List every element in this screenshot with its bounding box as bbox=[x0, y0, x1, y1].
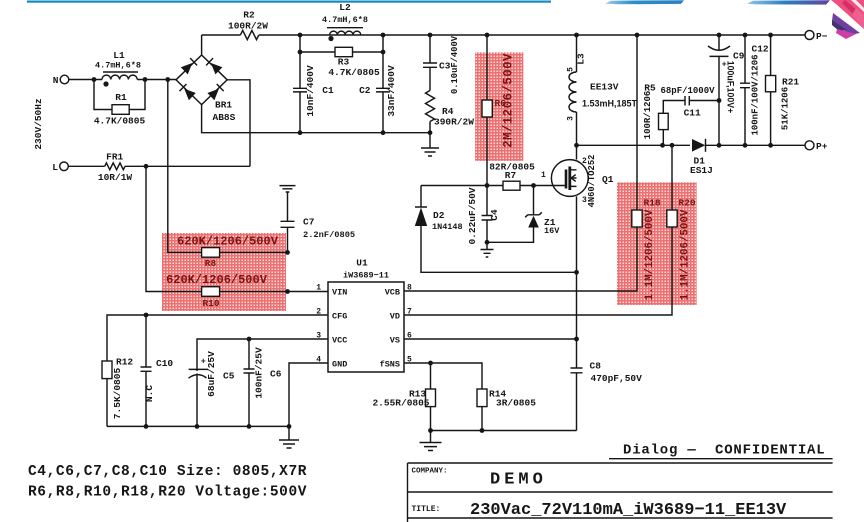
capacitor C8 bbox=[571, 368, 583, 431]
svg-text:3: 3 bbox=[567, 116, 576, 121]
highlight box R18 R20 bbox=[617, 182, 697, 305]
svg-text:P+: P+ bbox=[816, 141, 828, 152]
node junction source line bbox=[574, 270, 579, 275]
svg-text:1.1M/1206/500V: 1.1M/1206/500V bbox=[680, 209, 692, 300]
svg-text:C8: C8 bbox=[590, 361, 602, 372]
svg-text:10R/1W: 10R/1W bbox=[98, 172, 133, 183]
svg-text:33nF/400V: 33nF/400V bbox=[386, 65, 397, 117]
capacitor C1 bbox=[293, 52, 307, 133]
svg-text:R7: R7 bbox=[505, 170, 517, 181]
capacitor C11 bbox=[685, 96, 719, 106]
svg-text:100R/2W: 100R/2W bbox=[228, 21, 268, 32]
svg-text:0.10uF/400V: 0.10uF/400V bbox=[450, 35, 460, 94]
svg-text:L2: L2 bbox=[339, 2, 351, 13]
svg-text:AB8S: AB8S bbox=[213, 112, 236, 123]
svg-text:D2: D2 bbox=[433, 210, 445, 221]
resistor R3 bbox=[300, 35, 335, 52]
svg-text:4.7mH,6*8: 4.7mH,6*8 bbox=[95, 61, 141, 71]
svg-text:C1: C1 bbox=[322, 85, 334, 96]
svg-text:N: N bbox=[53, 75, 59, 86]
node P+ terminal bbox=[805, 141, 814, 150]
bridge rectifier BR1 bbox=[176, 55, 227, 105]
svg-text:R21: R21 bbox=[782, 77, 799, 88]
resistor R8 bbox=[202, 248, 220, 258]
svg-text:R4: R4 bbox=[442, 106, 454, 117]
wire N-sense down bbox=[168, 80, 202, 253]
svg-text:10nF/400V: 10nF/400V bbox=[305, 65, 316, 117]
svg-text:C11: C11 bbox=[684, 107, 701, 118]
svg-text:1: 1 bbox=[541, 171, 546, 180]
wire VS net bbox=[404, 338, 577, 340]
svg-text:N.C: N.C bbox=[144, 385, 155, 402]
svg-text:R1: R1 bbox=[115, 92, 127, 103]
wire gate line bbox=[421, 185, 503, 187]
capacitor C12 bbox=[740, 35, 750, 145]
ground primary bbox=[421, 133, 439, 156]
svg-text:C4: C4 bbox=[489, 209, 500, 221]
svg-text:1.53mH,185T: 1.53mH,185T bbox=[582, 99, 638, 109]
wire drain line bbox=[577, 144, 691, 146]
wire Q1 source down bbox=[576, 196, 578, 368]
svg-text:100R/1206: 100R/1206 bbox=[643, 91, 653, 140]
svg-text:0.22uF/50V: 0.22uF/50V bbox=[467, 187, 478, 244]
node N terminal bbox=[60, 75, 69, 84]
wire top rail bbox=[259, 34, 805, 36]
svg-text:470pF,50V: 470pF,50V bbox=[591, 373, 643, 384]
decorative top blue line bbox=[27, 1, 551, 3]
capacitor C6 bbox=[244, 339, 255, 426]
svg-text:C5: C5 bbox=[223, 371, 235, 382]
svg-text:VD: VD bbox=[390, 312, 400, 322]
svg-text:C6: C6 bbox=[270, 369, 282, 380]
svg-text:3R/0805: 3R/0805 bbox=[496, 397, 536, 408]
wire sense gnd bbox=[431, 430, 577, 432]
svg-text:R6,R8,R10,R18,R20 Voltage:500V: R6,R8,R10,R18,R20 Voltage:500V bbox=[28, 485, 307, 501]
svg-text:16V: 16V bbox=[544, 226, 560, 236]
capacitor C10 bbox=[141, 315, 152, 426]
ground U1 bbox=[279, 426, 299, 448]
svg-text:FR1: FR1 bbox=[106, 152, 123, 163]
highlight box R6 bbox=[475, 52, 523, 160]
wire L-line to bridge right vertex bbox=[227, 80, 250, 167]
svg-text:4N60/TO252: 4N60/TO252 bbox=[587, 155, 597, 208]
svg-text:Q1: Q1 bbox=[602, 174, 614, 185]
title block frame bbox=[408, 463, 833, 518]
svg-text:C4,C6,C7,C8,C10 Size: 0805,X7R: C4,C6,C7,C8,C10 Size: 0805,X7R bbox=[28, 464, 307, 480]
ground sense bbox=[420, 431, 442, 451]
svg-text:R20: R20 bbox=[679, 198, 696, 209]
svg-text:C10: C10 bbox=[156, 358, 173, 369]
zener Z1 bbox=[525, 186, 542, 218]
op-amp U1 bbox=[328, 282, 404, 372]
svg-text:COMPANY:: COMPANY: bbox=[412, 468, 448, 476]
resistor R6 bbox=[486, 35, 488, 100]
svg-text:100nF/100V/1206: 100nF/100V/1206 bbox=[751, 54, 761, 135]
svg-text:68uF/25V: 68uF/25V bbox=[206, 351, 217, 397]
svg-text:230Vac_72V110mA_iW3689−11_EE13: 230Vac_72V110mA_iW3689−11_EE13V bbox=[470, 501, 787, 520]
decorative brush stroke 2 bbox=[747, 0, 830, 4]
svg-text:68pF/1000V: 68pF/1000V bbox=[661, 86, 716, 96]
wire bridge top to rail bbox=[201, 35, 203, 55]
svg-text:C7: C7 bbox=[303, 217, 315, 228]
resistor R4 bbox=[426, 91, 435, 122]
capacitor C9 bbox=[718, 35, 720, 50]
svg-text:BR1: BR1 bbox=[215, 100, 232, 111]
svg-text:8: 8 bbox=[407, 284, 412, 293]
capacitor C7 bbox=[281, 192, 295, 252]
svg-text:620K/1206/500V: 620K/1206/500V bbox=[166, 273, 268, 287]
svg-text:230V/50Hz: 230V/50Hz bbox=[33, 98, 44, 149]
resistor R1 bbox=[94, 80, 112, 110]
svg-text:51K/1206: 51K/1206 bbox=[781, 87, 791, 130]
ground C7 (inverted) bbox=[280, 186, 296, 192]
node junction gnd rail end bbox=[428, 130, 433, 135]
svg-text:iW3689−11: iW3689−11 bbox=[343, 271, 389, 281]
node P- terminal bbox=[805, 31, 814, 40]
wire fSNS net bbox=[404, 363, 482, 389]
wire L1 to bridge bbox=[137, 79, 176, 81]
decorative corner ribbon bbox=[831, 0, 864, 29]
resistor R10 bbox=[202, 287, 220, 297]
svg-text:U1: U1 bbox=[356, 258, 368, 269]
svg-text:1N4148: 1N4148 bbox=[432, 222, 463, 232]
wire GND net bbox=[289, 363, 328, 426]
svg-text:4.7mH,6*8: 4.7mH,6*8 bbox=[322, 15, 368, 25]
decorative brush stroke 1 bbox=[605, 0, 684, 4]
fuse resistor FR1 bbox=[60, 162, 69, 171]
svg-text:VCC: VCC bbox=[332, 336, 347, 346]
node junction C1 bottom bbox=[298, 130, 303, 135]
wire N input bbox=[69, 79, 102, 81]
svg-text:4.7K/0805: 4.7K/0805 bbox=[94, 116, 146, 127]
svg-text:L1: L1 bbox=[113, 50, 125, 61]
svg-text:CFG: CFG bbox=[332, 312, 347, 322]
svg-text:1: 1 bbox=[316, 284, 321, 293]
svg-text:5: 5 bbox=[567, 67, 576, 72]
svg-text:VIN: VIN bbox=[332, 288, 347, 298]
svg-text:ES1J: ES1J bbox=[690, 165, 713, 176]
svg-text:fSNS: fSNS bbox=[380, 360, 400, 370]
resistor R21 bbox=[770, 35, 772, 76]
svg-text:VCB: VCB bbox=[385, 288, 400, 298]
svg-text:C12: C12 bbox=[752, 44, 769, 55]
svg-text:GND: GND bbox=[332, 360, 347, 370]
resistor R2 bbox=[202, 34, 241, 36]
wire vcc gnd rail bbox=[107, 425, 289, 427]
highlight box R8 R10 bbox=[162, 233, 286, 311]
resistor R18 bbox=[636, 35, 638, 210]
node junction L-line bbox=[144, 164, 149, 169]
wire bridge bottom to gnd rail bbox=[202, 105, 430, 133]
resistor R13 bbox=[430, 363, 432, 389]
svg-text:R10: R10 bbox=[202, 298, 219, 309]
svg-text:L: L bbox=[52, 162, 58, 173]
svg-text:7: 7 bbox=[407, 308, 412, 317]
svg-text:2.2nF/0805: 2.2nF/0805 bbox=[303, 230, 355, 240]
resistor R7 bbox=[503, 181, 520, 190]
resistor R12 bbox=[102, 361, 112, 379]
svg-text:DEMO: DEMO bbox=[490, 471, 547, 490]
diode D2 bbox=[415, 186, 427, 208]
svg-text:R18: R18 bbox=[644, 198, 661, 209]
inductor L1 bbox=[102, 75, 137, 79]
wire VCC net bbox=[197, 339, 328, 371]
ground gate bbox=[481, 242, 494, 257]
resistor R5 bbox=[662, 130, 664, 146]
svg-text:620K/1206/500V: 620K/1206/500V bbox=[177, 235, 279, 249]
svg-text:L3: L3 bbox=[576, 53, 587, 65]
svg-text:2.55R/0805: 2.55R/0805 bbox=[372, 397, 429, 408]
svg-text:C2: C2 bbox=[359, 85, 371, 96]
svg-text:R2: R2 bbox=[243, 10, 255, 21]
diode D1 bbox=[692, 139, 705, 152]
capacitor C4 bbox=[482, 186, 493, 243]
transistor Q1 bbox=[551, 160, 588, 197]
svg-text:R8: R8 bbox=[205, 258, 217, 269]
resistor R14 bbox=[477, 389, 487, 407]
transformer L3 bbox=[576, 35, 578, 72]
svg-text:Dialog — CONFIDENTIAL: Dialog — CONFIDENTIAL bbox=[623, 443, 825, 459]
svg-text:P−: P− bbox=[816, 31, 828, 42]
svg-text:7.5K/0805: 7.5K/0805 bbox=[112, 368, 123, 420]
wire CFG net bbox=[107, 315, 328, 361]
svg-text:C3: C3 bbox=[439, 61, 451, 72]
inductor L2 bbox=[330, 31, 361, 35]
capacitor C2 bbox=[376, 52, 390, 133]
node junction C2 bottom bbox=[381, 130, 386, 135]
svg-text:1.1M/1206/500V: 1.1M/1206/500V bbox=[644, 209, 656, 300]
svg-text:R12: R12 bbox=[116, 357, 133, 368]
svg-text:100uF,100V+: 100uF,100V+ bbox=[726, 61, 736, 114]
svg-text:VS: VS bbox=[390, 336, 400, 346]
node junction N-L1 bbox=[92, 77, 97, 82]
svg-text:TITLE:: TITLE: bbox=[412, 505, 441, 514]
resistor R20 bbox=[671, 145, 673, 210]
svg-text:100nF/25V: 100nF/25V bbox=[254, 347, 265, 399]
svg-text:390R/2W: 390R/2W bbox=[434, 117, 474, 128]
svg-text:R6: R6 bbox=[495, 98, 507, 109]
capacitor C3 bbox=[423, 35, 437, 91]
svg-text:EE13V: EE13V bbox=[590, 82, 619, 93]
svg-text:4.7K/0805: 4.7K/0805 bbox=[328, 67, 380, 78]
wire L-sense down bbox=[146, 166, 202, 291]
